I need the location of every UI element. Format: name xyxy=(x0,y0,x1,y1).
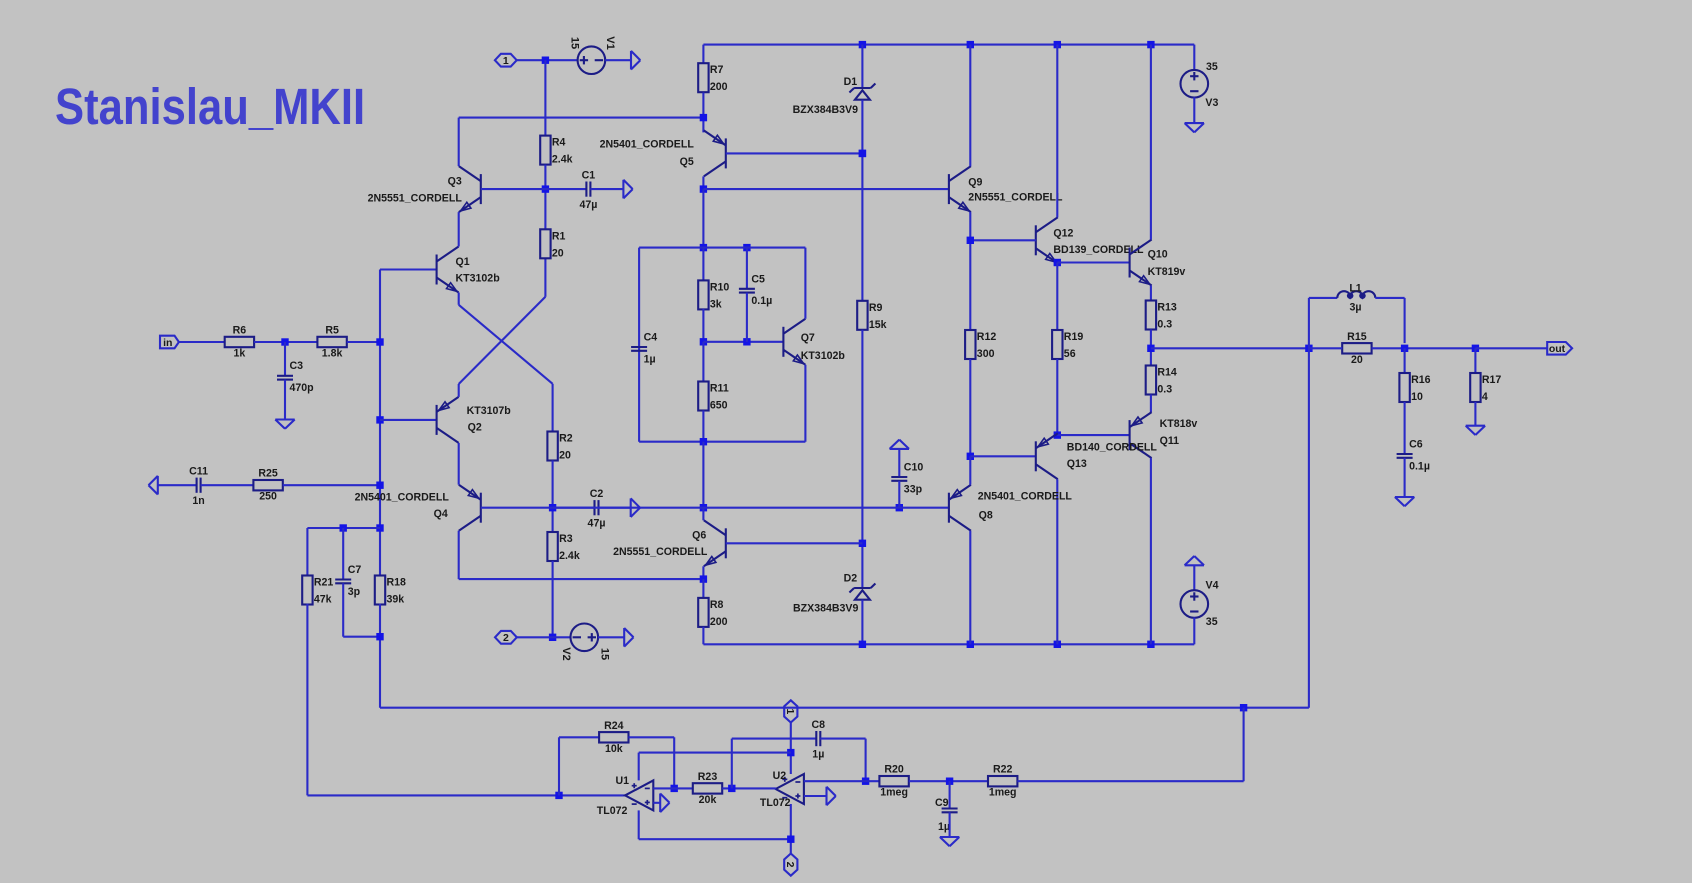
svg-text:4: 4 xyxy=(1482,391,1488,403)
svg-text:V4: V4 xyxy=(1206,580,1219,592)
svg-text:R2: R2 xyxy=(559,433,573,445)
svg-text:Q4: Q4 xyxy=(434,508,448,520)
svg-text:R5: R5 xyxy=(325,325,339,337)
svg-text:470p: 470p xyxy=(290,382,315,394)
svg-text:Q12: Q12 xyxy=(1053,228,1073,240)
svg-text:BZX384B3V9: BZX384B3V9 xyxy=(793,104,858,116)
svg-text:BD140_CORDELL: BD140_CORDELL xyxy=(1067,441,1158,453)
svg-text:R20: R20 xyxy=(884,764,904,776)
svg-text:R16: R16 xyxy=(1411,374,1431,386)
svg-text:47µ: 47µ xyxy=(579,199,597,211)
svg-text:1.8k: 1.8k xyxy=(322,348,343,360)
svg-text:R18: R18 xyxy=(387,577,407,589)
svg-text:35: 35 xyxy=(1206,616,1218,628)
svg-text:R12: R12 xyxy=(977,331,997,343)
svg-text:TL072: TL072 xyxy=(597,805,628,817)
svg-text:10: 10 xyxy=(1411,391,1423,403)
svg-text:2N5551_CORDELL: 2N5551_CORDELL xyxy=(968,192,1063,204)
svg-text:Q2: Q2 xyxy=(468,421,482,433)
svg-text:C1: C1 xyxy=(582,170,596,182)
svg-text:20: 20 xyxy=(1351,354,1363,366)
svg-text:Q1: Q1 xyxy=(456,256,470,268)
svg-text:R15: R15 xyxy=(1347,331,1367,343)
svg-text:R21: R21 xyxy=(314,577,334,589)
svg-text:V3: V3 xyxy=(1205,97,1218,109)
svg-text:1µ: 1µ xyxy=(938,821,950,833)
svg-text:1µ: 1µ xyxy=(644,353,656,365)
svg-text:650: 650 xyxy=(710,400,728,412)
svg-text:C6: C6 xyxy=(1409,439,1423,451)
svg-text:0.3: 0.3 xyxy=(1157,319,1172,331)
svg-text:3k: 3k xyxy=(710,298,722,310)
svg-text:1: 1 xyxy=(503,55,509,67)
svg-text:KT3102b: KT3102b xyxy=(456,273,501,285)
svg-text:R17: R17 xyxy=(1482,374,1502,386)
svg-text:V2: V2 xyxy=(560,647,572,660)
svg-text:R22: R22 xyxy=(993,764,1013,776)
svg-text:39k: 39k xyxy=(387,594,405,606)
svg-text:out: out xyxy=(1549,343,1566,355)
svg-text:BZX384B3V9: BZX384B3V9 xyxy=(793,602,858,614)
svg-text:15: 15 xyxy=(599,648,611,660)
svg-text:R8: R8 xyxy=(710,599,724,611)
svg-text:47k: 47k xyxy=(314,594,332,606)
svg-text:2N5401_CORDELL: 2N5401_CORDELL xyxy=(355,492,450,504)
svg-text:TL072: TL072 xyxy=(760,797,791,809)
svg-text:R10: R10 xyxy=(710,281,730,293)
svg-text:C4: C4 xyxy=(644,332,658,344)
svg-text:KT818v: KT818v xyxy=(1160,418,1198,430)
svg-text:Stanislau_MKII: Stanislau_MKII xyxy=(55,79,365,136)
svg-text:R14: R14 xyxy=(1157,367,1177,379)
svg-text:R23: R23 xyxy=(698,771,718,783)
svg-text:R19: R19 xyxy=(1064,331,1084,343)
svg-text:2.4k: 2.4k xyxy=(552,154,573,166)
svg-text:35: 35 xyxy=(1206,61,1218,73)
svg-text:R25: R25 xyxy=(258,468,278,480)
svg-text:2: 2 xyxy=(503,632,509,644)
svg-text:3µ: 3µ xyxy=(1350,302,1362,314)
svg-text:R11: R11 xyxy=(710,383,729,395)
svg-text:C10: C10 xyxy=(904,462,924,474)
svg-text:Q10: Q10 xyxy=(1148,249,1168,261)
svg-text:33p: 33p xyxy=(904,483,923,495)
svg-text:2N5551_CORDELL: 2N5551_CORDELL xyxy=(613,546,708,558)
svg-text:1meg: 1meg xyxy=(989,787,1017,799)
svg-text:R24: R24 xyxy=(604,720,624,732)
svg-text:Q7: Q7 xyxy=(801,332,815,344)
svg-text:15k: 15k xyxy=(869,319,887,331)
svg-text:0.1µ: 0.1µ xyxy=(1409,460,1430,472)
svg-text:Q3: Q3 xyxy=(448,176,462,188)
svg-text:Q6: Q6 xyxy=(692,530,706,542)
svg-text:2N5551_CORDELL: 2N5551_CORDELL xyxy=(368,193,463,205)
svg-text:KT3107b: KT3107b xyxy=(467,405,512,417)
svg-text:KT819v: KT819v xyxy=(1148,266,1186,278)
svg-text:1µ: 1µ xyxy=(812,749,824,761)
svg-text:C7: C7 xyxy=(348,564,362,576)
svg-text:20k: 20k xyxy=(699,794,717,806)
svg-text:C2: C2 xyxy=(590,488,604,500)
svg-text:Q11: Q11 xyxy=(1160,435,1180,447)
svg-text:47µ: 47µ xyxy=(588,518,606,530)
svg-text:0.1µ: 0.1µ xyxy=(751,295,772,307)
svg-text:1: 1 xyxy=(784,708,796,714)
svg-text:D1: D1 xyxy=(844,76,858,88)
svg-text:1n: 1n xyxy=(192,495,204,507)
svg-text:Q9: Q9 xyxy=(968,176,982,188)
svg-text:20: 20 xyxy=(552,247,564,259)
svg-text:R4: R4 xyxy=(552,137,566,149)
svg-text:1k: 1k xyxy=(234,348,246,360)
svg-text:D2: D2 xyxy=(844,573,858,585)
svg-text:10k: 10k xyxy=(605,743,623,755)
svg-text:0.3: 0.3 xyxy=(1157,384,1172,396)
svg-text:R1: R1 xyxy=(552,230,566,242)
svg-text:2.4k: 2.4k xyxy=(559,550,580,562)
svg-text:R6: R6 xyxy=(233,325,247,337)
svg-text:200: 200 xyxy=(710,81,728,93)
svg-text:L1: L1 xyxy=(1349,283,1361,295)
svg-text:3p: 3p xyxy=(348,586,361,598)
svg-text:C11: C11 xyxy=(189,466,208,478)
svg-text:KT3102b: KT3102b xyxy=(801,350,846,362)
svg-text:2: 2 xyxy=(784,862,796,868)
svg-text:R7: R7 xyxy=(710,64,724,76)
svg-text:200: 200 xyxy=(710,616,728,628)
svg-text:56: 56 xyxy=(1064,348,1076,360)
svg-text:C3: C3 xyxy=(290,360,304,372)
svg-text:300: 300 xyxy=(977,348,995,360)
svg-text:Q13: Q13 xyxy=(1067,458,1087,470)
svg-text:1meg: 1meg xyxy=(880,787,908,799)
svg-text:C9: C9 xyxy=(935,797,949,809)
svg-text:U1: U1 xyxy=(615,775,629,787)
svg-text:C8: C8 xyxy=(812,719,826,731)
svg-text:in: in xyxy=(163,337,172,349)
svg-text:Q8: Q8 xyxy=(979,510,993,522)
svg-text:2N5401_CORDELL: 2N5401_CORDELL xyxy=(600,139,695,151)
svg-text:C5: C5 xyxy=(751,273,765,285)
svg-text:U2: U2 xyxy=(773,770,787,782)
svg-text:R13: R13 xyxy=(1157,302,1177,314)
svg-text:Q5: Q5 xyxy=(680,156,694,168)
svg-text:20: 20 xyxy=(559,450,571,462)
svg-text:V1: V1 xyxy=(604,36,616,49)
svg-text:R9: R9 xyxy=(869,302,883,314)
svg-text:R3: R3 xyxy=(559,533,573,545)
svg-text:2N5401_CORDELL: 2N5401_CORDELL xyxy=(978,491,1073,503)
svg-text:15: 15 xyxy=(569,37,581,49)
svg-text:250: 250 xyxy=(259,491,277,503)
